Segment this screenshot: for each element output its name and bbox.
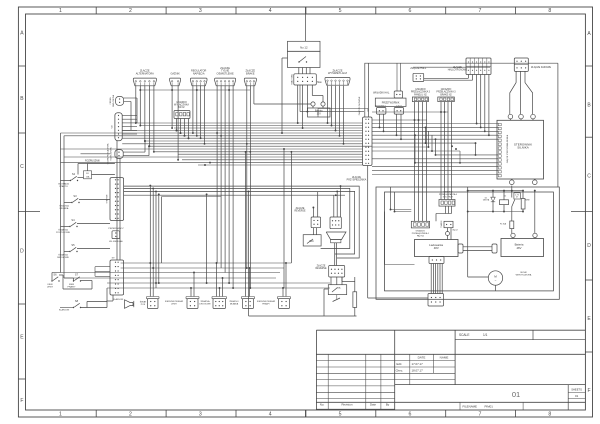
- svg-text:ŚWIATŁA: ŚWIATŁA: [58, 228, 68, 231]
- title block frame: [315, 330, 317, 410]
- wire stacyjka drops: [297, 85, 299, 123]
- svg-text:01: 01: [512, 390, 520, 399]
- svg-text:62 N2: 62 N2: [178, 107, 185, 109]
- svg-text:WŁ.KIER.HAL: WŁ.KIER.HAL: [109, 240, 124, 243]
- wires main connector to top rail: [364, 63, 366, 117]
- wire long vertical x284: [283, 149, 285, 288]
- wire elbows right of main connector: [425, 127, 427, 143]
- svg-text:PANELU N2: PANELU N2: [414, 93, 427, 96]
- svg-text:ZŁĄCZE: ZŁĄCZE: [296, 207, 305, 210]
- centering mark bottom: [305, 410, 307, 417]
- svg-text:1: 1: [59, 8, 62, 14]
- svg-text:REVERSE: REVERSE: [295, 211, 306, 213]
- svg-text:By: By: [386, 403, 390, 407]
- svg-text:MIJANIA: MIJANIA: [230, 302, 239, 305]
- svg-text:PRZERYWACZ: PRZERYWACZ: [108, 227, 124, 230]
- wires reverse 2 loop: [330, 277, 332, 285]
- wire center mark to ignition: [305, 14, 307, 41]
- wire cross under top connectors: [140, 89, 250, 91]
- svg-text:Date: Date: [370, 403, 376, 407]
- svg-text:7: 7: [478, 8, 481, 14]
- svg-text:Max: Max: [317, 81, 322, 84]
- svg-text:PRAWY: PRAWY: [262, 302, 270, 305]
- controller pin strip: [498, 123, 501, 126]
- svg-text:WYŁĄCZNIKA: WYŁĄCZNIKA: [174, 104, 189, 107]
- svg-text:DATE: DATE: [418, 356, 426, 360]
- wires przetwornik cluster to bus: [379, 114, 381, 127]
- wire ignition left branch: [282, 57, 288, 59]
- wires drops to bottom connectors: [190, 288, 192, 297]
- wire cewka zaplonowa stub: [124, 97, 137, 99]
- svg-text:NAME: NAME: [440, 356, 449, 360]
- svg-text:ŚWIATŁA: ŚWIATŁA: [58, 253, 68, 256]
- box Bateria 48V: [501, 239, 544, 257]
- wire stacyjka to battery: [312, 95, 323, 97]
- svg-text:BRAKE N2: BRAKE N2: [440, 93, 452, 96]
- svg-text:48V: 48V: [517, 246, 522, 250]
- switch contact controller: [511, 186, 513, 198]
- svg-text:F: F: [587, 388, 590, 394]
- svg-text:S3: S3: [73, 194, 77, 198]
- svg-text:Edit: Edit: [397, 362, 402, 366]
- svg-text:S7: S7: [75, 272, 79, 276]
- wires brake drops: [246, 86, 248, 268]
- wires ZLACZE FAZOWE to controller: [515, 71, 517, 82]
- svg-text:ZŁĄCZE GŁÓWNE: ZŁĄCZE GŁÓWNE: [358, 96, 361, 115]
- wire vertical bundle mid-left: [149, 186, 151, 297]
- charger bottom connector: [429, 257, 444, 264]
- svg-text:2: 2: [129, 8, 132, 14]
- svg-text:SCALE: SCALE: [459, 333, 469, 337]
- title block date-name table: [395, 359, 455, 361]
- battery 12V box: [308, 108, 331, 117]
- svg-text:PIM01: PIM01: [485, 404, 494, 408]
- svg-text:MRE: MRE: [525, 200, 530, 202]
- wire rozrusznik loop: [87, 164, 89, 171]
- svg-text:LEWY: LEWY: [47, 287, 54, 289]
- svg-text:SHEETS: SHEETS: [571, 388, 582, 392]
- svg-text:01: 01: [575, 394, 579, 398]
- svg-text:3: 3: [199, 412, 202, 418]
- svg-text:DROGOWE: DROGOWE: [199, 303, 211, 305]
- controller top terminals: [508, 114, 513, 119]
- wires battery area horizontals: [318, 108, 368, 110]
- svg-text:NAPIĘCIA: NAPIĘCIA: [193, 72, 205, 75]
- terminal circle wy: [446, 232, 450, 236]
- svg-text:48V: 48V: [434, 246, 439, 250]
- svg-text:S8: S8: [75, 299, 79, 303]
- svg-text:WENTYLATORA: WENTYLATORA: [516, 273, 532, 276]
- wire cewka przelacznika stubs: [123, 151, 145, 153]
- box S16 switch: [303, 235, 321, 246]
- svg-text:KLAKSON: KLAKSON: [59, 309, 70, 312]
- svg-text:15A: 15A: [337, 287, 341, 290]
- svg-text:8: 8: [548, 412, 551, 418]
- svg-text:FAZ N2: FAZ N2: [417, 234, 425, 237]
- svg-text:18.07.17: 18.07.17: [412, 368, 424, 372]
- svg-text:S2: S2: [72, 172, 76, 176]
- svg-text:D: D: [20, 248, 24, 254]
- title block filename row: [459, 402, 461, 410]
- wire stubs left of klakson strip: [95, 266, 110, 268]
- svg-text:GAŹNIK: GAŹNIK: [170, 72, 180, 75]
- wire left rail 1: [60, 133, 62, 273]
- svg-text:~: ~: [495, 279, 497, 283]
- svg-text:Revision: Revision: [341, 403, 352, 407]
- svg-text:0N5/7A: 0N5/7A: [483, 199, 490, 202]
- box right inner: [385, 192, 554, 291]
- wires alternator drops: [135, 86, 137, 123]
- resistor vertical: [353, 292, 357, 308]
- wires wkladki hal connector up to rail: [396, 63, 398, 91]
- box relay 15A: [328, 285, 346, 295]
- wires ZLACZE HALLOTRONOWE down: [467, 75, 469, 79]
- zener 4.7V: [514, 193, 520, 199]
- wires reverse 1: [312, 208, 314, 218]
- svg-text:F1 30A: F1 30A: [500, 223, 507, 226]
- svg-text:8: 8: [548, 8, 551, 14]
- switch S7 KIER PRAWY: [73, 280, 74, 281]
- wire bus horizontal lines: [137, 122, 363, 124]
- svg-text:C: C: [587, 173, 591, 179]
- svg-text:S4: S4: [71, 218, 75, 222]
- charger inline plug right: [492, 244, 497, 253]
- wires reverse lamp: [333, 195, 335, 217]
- svg-text:6: 6: [409, 412, 412, 418]
- svg-text:4: 4: [269, 8, 272, 14]
- title block revision table: [316, 359, 394, 361]
- diode relay cluster rails: [468, 190, 523, 192]
- svg-text:GNIAZDO: GNIAZDO: [441, 88, 452, 91]
- wire main connector bottom drop: [367, 166, 369, 299]
- junction dots right bus: [451, 145, 453, 147]
- wire stubs to switches: [61, 180, 71, 182]
- box STEROWNIK SILNIKA: [497, 120, 544, 179]
- box PRZETWORNIK: [375, 98, 406, 106]
- svg-text:ROZRUSZNIK: ROZRUSZNIK: [85, 161, 100, 163]
- wire vertical x241: [245, 152, 247, 297]
- wire to battery left terminal: [254, 103, 311, 105]
- centering mark top: [305, 7, 307, 14]
- svg-text:D: D: [587, 243, 591, 249]
- svg-text:OŚWIETLENIE: OŚWIETLENIE: [217, 73, 234, 76]
- svg-text:FILENAME: FILENAME: [463, 404, 478, 408]
- svg-text:SILNIKA: SILNIKA: [517, 146, 529, 150]
- wires tylne oswietlenie drops: [216, 86, 218, 263]
- wires motor: [468, 276, 489, 278]
- svg-text:PRZEŁĄCZNIKA 3: PRZEŁĄCZNIKA 3: [436, 91, 456, 94]
- svg-text:17.07.17: 17.07.17: [412, 362, 424, 366]
- wire bottom distribution lines: [121, 262, 292, 264]
- switch S4 SWIATLA POSTOJOWE: [69, 226, 70, 227]
- wires gniazdo przelacznika panelu drops: [414, 102, 416, 222]
- svg-text:STACYJKA: STACYJKA: [290, 74, 293, 85]
- wires transformer to charger: [447, 228, 449, 232]
- svg-text:POS: POS: [141, 304, 146, 306]
- wires gaznik drops: [171, 86, 173, 128]
- svg-text:ZŁĄCZE: ZŁĄCZE: [317, 264, 326, 267]
- wires gniazdo przelacznika brake drops: [440, 102, 442, 200]
- svg-text:TRANSF.: TRANSF.: [440, 220, 443, 228]
- wires charger to battery: [463, 246, 492, 248]
- svg-text:REVERSE: REVERSE: [316, 268, 327, 270]
- wires ignition to connector: [298, 68, 300, 74]
- svg-text:1: 1: [59, 412, 62, 418]
- connector reverse lamp 2x3: [330, 217, 341, 229]
- wire left rail 2: [63, 136, 65, 278]
- switch S5 SWIATLA DROGOWE: [69, 251, 70, 252]
- svg-text:47: 47: [516, 197, 518, 199]
- junction dots bus: [176, 130, 178, 132]
- svg-text:WKŁADKI HAL.: WKŁADKI HAL.: [373, 92, 390, 95]
- wire long vertical x248: [248, 191, 250, 316]
- svg-text:ZŁĄCZE STEROWNIKA SILNIKA: ZŁĄCZE STEROWNIKA SILNIKA: [506, 134, 509, 163]
- centering mark right: [571, 211, 593, 213]
- svg-text:HALLOTRONOWE: HALLOTRONOWE: [448, 69, 468, 72]
- svg-text:ZŁĄCZE FAZOWE: ZŁĄCZE FAZOWE: [531, 66, 551, 69]
- svg-text:No:: No:: [320, 403, 325, 407]
- svg-text:PRZEŁĄCZNIKA 3: PRZEŁĄCZNIKA 3: [411, 91, 431, 94]
- svg-text:STARTER: STARTER: [105, 194, 108, 203]
- svg-text:5: 5: [339, 412, 342, 418]
- svg-text:ZŁĄCZE HALL: ZŁĄCZE HALL: [410, 67, 426, 70]
- svg-text:5: 5: [339, 8, 342, 14]
- motor M fan: [488, 271, 502, 285]
- relay contact below: [333, 298, 340, 302]
- svg-text:PRAWY: PRAWY: [68, 286, 76, 289]
- svg-text:PRZETWORNIK: PRZETWORNIK: [382, 102, 400, 105]
- svg-text:3: 3: [199, 8, 202, 14]
- zone row ticks left: [18, 65, 25, 67]
- wire vertical x206: [206, 194, 208, 283]
- wire battery right terminal up: [534, 191, 536, 233]
- top rail wire: [365, 62, 558, 64]
- title block scale row: [455, 339, 585, 341]
- wire bus CD stubs: [122, 115, 137, 117]
- zone column ticks bottom: [95, 410, 97, 417]
- zone column ticks top: [95, 7, 97, 14]
- svg-text:S6: S6: [53, 272, 57, 276]
- svg-text:12V: 12V: [317, 112, 322, 115]
- box right outer: [376, 187, 559, 299]
- svg-text:ZAPŁONOWA: ZAPŁONOWA: [112, 94, 115, 107]
- battery terminals: [511, 233, 515, 237]
- wire long vertical x291: [290, 152, 292, 263]
- svg-text:F: F: [20, 398, 23, 404]
- switch S8 KLAKSON: [73, 307, 74, 308]
- wires bend left feeding reverse cluster: [124, 186, 360, 258]
- wires to controller pins from bus: [372, 123, 498, 125]
- centering mark left: [18, 211, 40, 213]
- svg-text:C: C: [20, 164, 24, 170]
- wires wyswietlacz drops: [327, 86, 329, 123]
- svg-text:S5: S5: [71, 243, 75, 247]
- svg-text:6: 6: [409, 8, 412, 14]
- title block drawing number cell: [395, 384, 586, 386]
- svg-text:ZŁĄCZE: ZŁĄCZE: [352, 176, 361, 179]
- wires gniazdo wylacznika down: [176, 119, 178, 131]
- switch S2 BLOKADA STARTU: [70, 180, 71, 181]
- svg-text:KLAKSON: KLAKSON: [113, 298, 124, 301]
- svg-text:4: 4: [269, 412, 272, 418]
- zone row ticks right: [585, 65, 592, 67]
- svg-text:DROGOWE: DROGOWE: [57, 257, 69, 259]
- connector GNIAZDO PRZELACZNIKA 1 FAZ: [411, 221, 429, 228]
- lamp housing trapezoid: [326, 232, 346, 240]
- horn KLAKSON: [125, 300, 134, 309]
- svg-text:CEWKA: CEWKA: [109, 97, 112, 105]
- svg-text:7: 7: [478, 412, 481, 418]
- box Ladowarka 48V: [415, 240, 459, 257]
- wires charger down: [430, 264, 432, 294]
- svg-text:GNIAZDO: GNIAZDO: [415, 88, 426, 91]
- ignition switch box No 12: [288, 41, 321, 51]
- switch S3 SWIATLA MIJANIA: [71, 202, 72, 203]
- svg-text:Chec.: Chec.: [396, 368, 404, 372]
- svg-text:POSTOJOWE: POSTOJOWE: [56, 232, 70, 234]
- switch S6 KIER LEWY: [51, 280, 52, 281]
- title block sheets cell: [567, 385, 569, 410]
- controller bottom terminals: [510, 180, 515, 185]
- svg-text:LEWY: LEWY: [171, 303, 178, 305]
- svg-text:CD: CD: [111, 125, 113, 129]
- wires regulator drops: [192, 86, 194, 133]
- svg-text:1/1: 1/1: [483, 333, 488, 337]
- svg-text:ZŁĄCZE: ZŁĄCZE: [453, 66, 462, 69]
- svg-text:BRAKE: BRAKE: [246, 72, 255, 75]
- wires przedluzacza to transformer: [445, 206, 447, 213]
- wires right of main connector upper: [372, 119, 427, 121]
- svg-text:KÓŁ PRZY: KÓŁ PRZY: [443, 196, 454, 199]
- svg-text:Wy.wł: Wy.wł: [452, 230, 458, 232]
- charger inline plug left: [458, 244, 463, 253]
- wire drops klakson strip to bottom: [112, 295, 114, 301]
- svg-text:No 12: No 12: [300, 46, 308, 50]
- svg-text:2: 2: [129, 412, 132, 418]
- connector ZLACZE LADOWARKI bottom: [428, 294, 444, 307]
- svg-text:ALTERNATORA: ALTERNATORA: [136, 72, 154, 75]
- wires left inside box: [390, 187, 392, 210]
- battery 12V terminals: [311, 102, 315, 106]
- svg-text:PRZYSPIESZNIKA: PRZYSPIESZNIKA: [347, 179, 367, 182]
